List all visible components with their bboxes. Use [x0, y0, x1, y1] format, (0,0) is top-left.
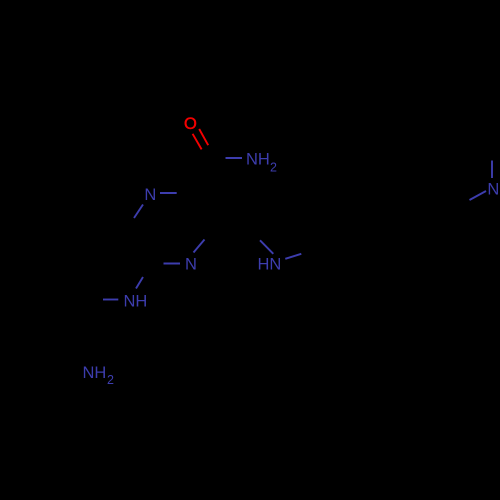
svg-text:NH: NH — [124, 293, 148, 311]
pyrazine N4-C5 bond half — [164, 263, 181, 265]
svg-text:N: N — [185, 256, 197, 274]
svg-text:NH: NH — [246, 151, 270, 169]
pyrazine C3-N4 bond half — [194, 240, 205, 253]
carbonyl O double bond line left — [193, 134, 202, 150]
svg-text:N: N — [144, 186, 156, 204]
carbonyl O double bond line right — [199, 129, 208, 145]
pyrazine N1-C6 bond half — [134, 205, 143, 219]
svg-text:NH: NH — [83, 364, 107, 382]
NH-C bond half — [103, 299, 118, 301]
pyrazine N1-C2 bond half — [160, 192, 177, 194]
amide C-N bond half — [226, 157, 243, 159]
C5-NH bond half — [136, 277, 143, 289]
svg-text:2: 2 — [270, 161, 277, 175]
svg-text:2: 2 — [107, 373, 114, 387]
indole N1'-C7a' bond half — [285, 254, 301, 259]
N-C bond half right — [470, 191, 487, 200]
svg-text:N: N — [487, 181, 499, 199]
svg-text:HN: HN — [258, 256, 282, 274]
N-methyl bond half — [491, 161, 493, 179]
indole N1'-C2' bond half — [260, 240, 273, 254]
svg-text:O: O — [184, 115, 197, 133]
